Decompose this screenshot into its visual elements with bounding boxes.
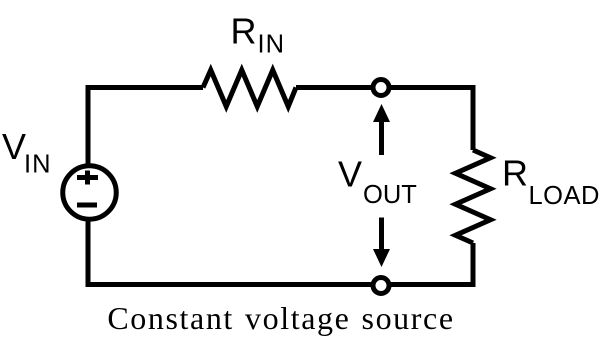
wire top-left: [88, 88, 203, 164]
svg-text:V: V: [338, 154, 362, 195]
resistor R_IN: [203, 70, 296, 107]
wire top-right: [296, 88, 473, 151]
wire bottom-right: [381, 243, 473, 285]
voltage source V_IN: [63, 166, 117, 220]
label R_IN: [231, 11, 286, 59]
arrow down (Vout -): [373, 218, 390, 268]
label V_OUT: [338, 154, 417, 210]
svg-text:Constant voltage source: Constant voltage source: [107, 300, 454, 336]
label R_LOAD: [502, 153, 600, 211]
svg-text:R: R: [502, 153, 528, 194]
node output bottom (open terminal): [373, 278, 389, 294]
svg-text:LOAD: LOAD: [529, 182, 600, 210]
arrow up (Vout +): [373, 104, 390, 155]
node output top (open terminal): [373, 80, 389, 96]
svg-text:V: V: [2, 126, 26, 167]
svg-text:R: R: [231, 11, 257, 52]
svg-text:IN: IN: [24, 151, 52, 179]
label V_IN: [2, 126, 52, 179]
svg-text:OUT: OUT: [363, 181, 417, 209]
svg-text:IN: IN: [258, 30, 286, 58]
wire bottom-left: [88, 222, 381, 285]
resistor R_LOAD: [456, 150, 491, 243]
